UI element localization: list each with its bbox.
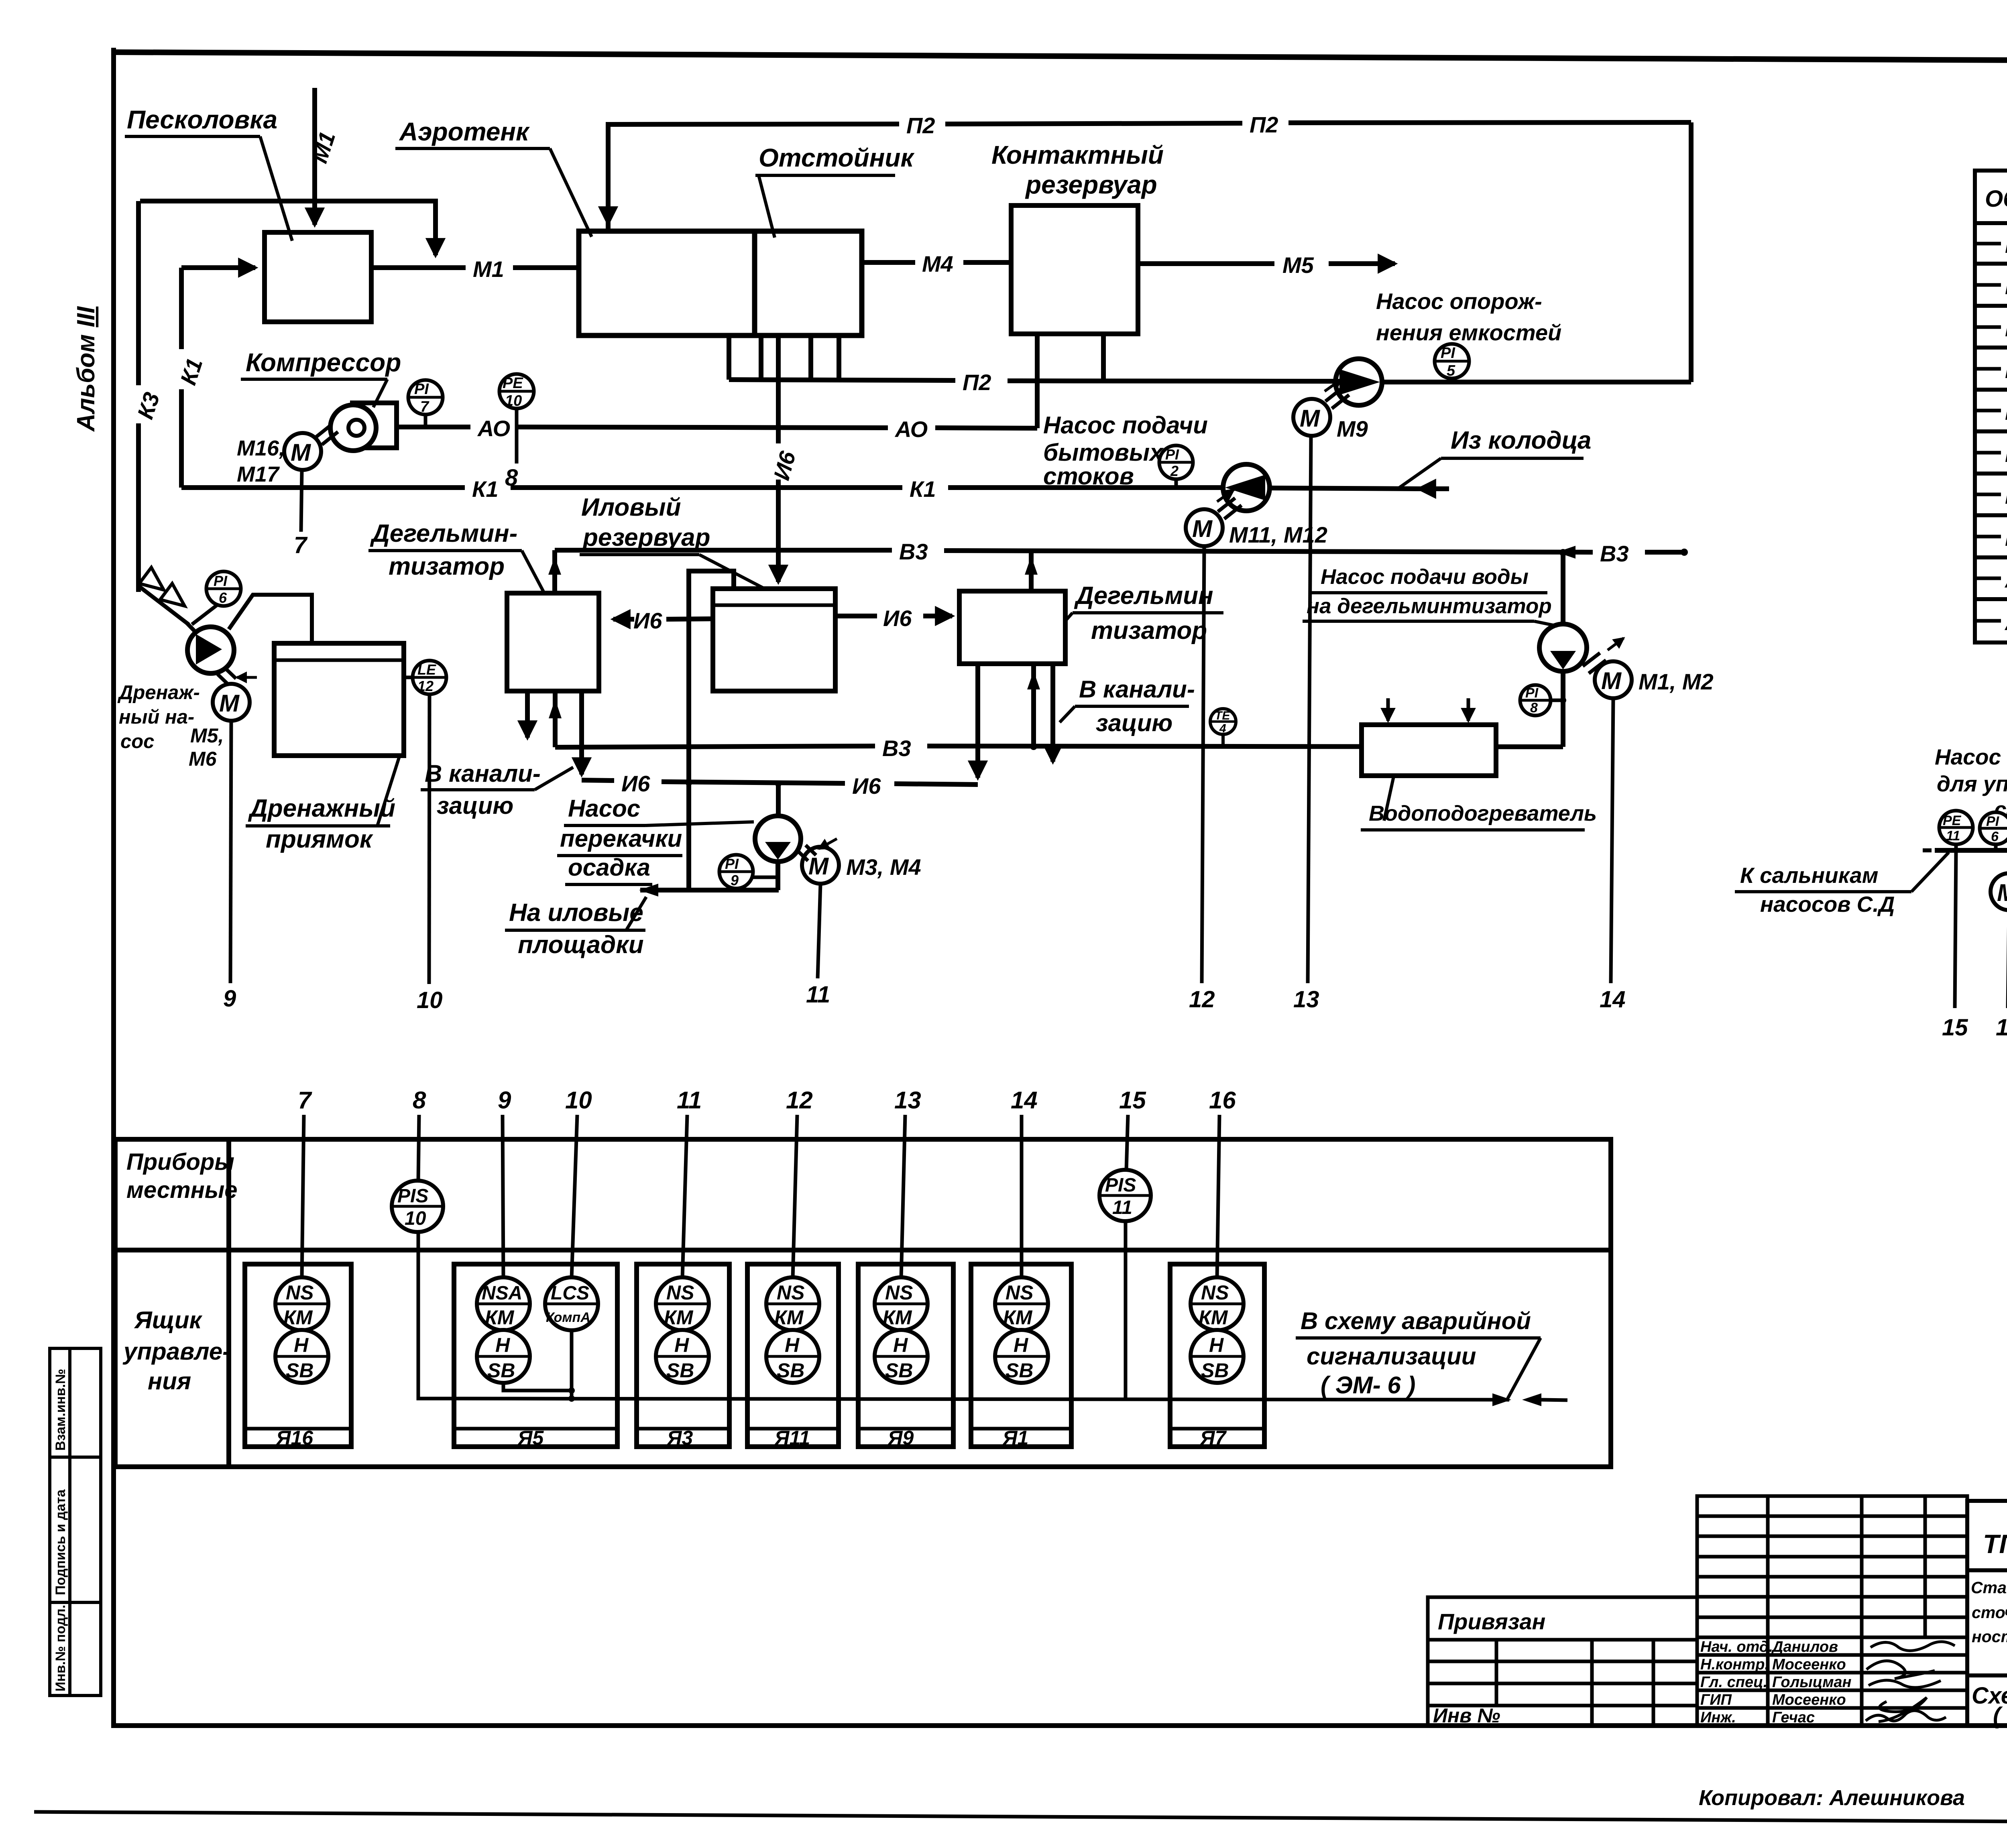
- svg-text:Дренажный: Дренажный: [248, 795, 395, 822]
- svg-text:для уплотнения: для уплотнения: [1937, 771, 2007, 796]
- svg-text:10: 10: [417, 987, 443, 1013]
- svg-text:LE: LE: [417, 661, 436, 678]
- svg-text:Подпись и дата: Подпись и дата: [53, 1489, 68, 1595]
- circle NSA KM box5: [477, 1277, 530, 1330]
- control box Я5: [454, 1264, 617, 1449]
- label Насос подачи бытовых стоков: [1043, 412, 1208, 490]
- svg-text:сос: сос: [120, 731, 154, 752]
- instrument PI 9: [719, 855, 778, 888]
- svg-text:7: 7: [420, 398, 429, 415]
- svg-text:перекачки: перекачки: [560, 825, 682, 852]
- svg-text:К1: К1: [472, 476, 499, 502]
- svg-text:КМ: КМ: [664, 1306, 694, 1329]
- frame left border: [111, 48, 116, 1726]
- svg-text:Я9: Я9: [887, 1427, 914, 1449]
- legend table grid: [1975, 171, 2007, 642]
- svg-text:тизатор: тизатор: [389, 553, 505, 580]
- svg-text:NS: NS: [286, 1281, 313, 1304]
- legend row M1: [1977, 232, 2007, 258]
- heater Водоподогреватель: [1362, 698, 1496, 776]
- wire 14 into box: [1020, 1115, 1024, 1278]
- instrument LE 12: [404, 661, 446, 694]
- svg-text:управле-: управле-: [122, 1338, 230, 1365]
- svg-text:КМ: КМ: [883, 1306, 912, 1329]
- svg-text:11: 11: [1946, 828, 1960, 844]
- svg-text:NS: NS: [1006, 1281, 1033, 1304]
- legend row K1: [1977, 358, 2007, 383]
- legend row A2: [1977, 611, 2007, 635]
- instrument PE 11: [1939, 811, 1973, 850]
- svg-text:М1: М1: [473, 256, 504, 282]
- svg-text:КомпА: КомпА: [546, 1310, 590, 1325]
- svg-text:PI: PI: [1986, 814, 2000, 829]
- svg-text:КМ: КМ: [283, 1306, 313, 1329]
- svg-text:5: 5: [1447, 362, 1455, 379]
- collector line to alarm scheme: [446, 1393, 1567, 1406]
- svg-text:М: М: [1601, 667, 1622, 694]
- apparatus Дегельминтизатор 2: [959, 591, 1065, 664]
- pipe В3 lower line: [555, 736, 1563, 761]
- control box Я7: [1170, 1264, 1264, 1449]
- svg-text:9: 9: [223, 986, 236, 1012]
- paper bottom edge: [34, 1812, 2007, 1824]
- svg-text:А2: А2: [2004, 611, 2007, 635]
- svg-text:М3, М4: М3, М4: [846, 854, 921, 880]
- svg-text:13: 13: [1293, 986, 1319, 1012]
- pipe В3 drop into дегельминтизатор 1: [548, 550, 561, 593]
- signature rows text: [1700, 1639, 1852, 1726]
- svg-text:К1: К1: [2005, 359, 2007, 383]
- instruments table grid: [115, 1139, 1611, 1467]
- circle NS KM box1: [995, 1277, 1048, 1330]
- label станция биологической очистки: [1971, 1578, 2007, 1646]
- pipe K1 vertical with arrow into песколовка: [181, 268, 255, 488]
- legend row I6: [1977, 441, 2007, 467]
- svg-text:М: М: [1192, 515, 1213, 542]
- svg-text:А1: А1: [2004, 568, 2007, 592]
- motor M3 M4: [798, 839, 839, 884]
- svg-text:Н: Н: [1209, 1334, 1224, 1356]
- svg-text:М: М: [808, 853, 829, 880]
- wire 7 from motor: [301, 470, 302, 532]
- pump насос подачи воды на дегельминтизатор: [1539, 549, 1587, 671]
- svg-text:К сальникам: К сальникам: [1740, 863, 1878, 888]
- svg-text:Данилов: Данилов: [1771, 1639, 1838, 1655]
- svg-text:Насос опорож-: Насос опорож-: [1376, 289, 1542, 314]
- wire 12 from M11 M12 motor: [1202, 546, 1204, 983]
- label Приборы местные: [126, 1149, 238, 1203]
- instrument PI 2: [1159, 445, 1193, 488]
- svg-text:П2: П2: [2005, 484, 2007, 508]
- svg-text:ностью 400 м³/сут.: ностью 400 м³/сут.: [1972, 1627, 2007, 1646]
- svg-text:Станция биологической очистки: Станция биологической очистки: [1971, 1578, 2007, 1597]
- pipe П2 top line: [608, 112, 1691, 231]
- circle NS KM box9: [875, 1277, 928, 1330]
- svg-text:11: 11: [677, 1087, 702, 1114]
- svg-text:И6: И6: [621, 771, 650, 796]
- control box Я9: [858, 1264, 953, 1449]
- svg-text:Дренаж-: Дренаж-: [117, 682, 200, 703]
- svg-text:И6: И6: [633, 608, 662, 633]
- instrument PI 7: [408, 380, 443, 427]
- svg-text:9: 9: [498, 1087, 511, 1114]
- wire 11 into box: [682, 1115, 687, 1278]
- pipe В3 upper line: [555, 539, 1688, 566]
- wires inside box5: [503, 1330, 575, 1402]
- svg-text:12: 12: [786, 1087, 813, 1114]
- tank Иловый резервуар: [713, 589, 835, 691]
- pipe sludge discharge from иловый резервуар: [639, 571, 779, 897]
- label Насос подачи воды на дегельминтизатор: [1303, 565, 1557, 626]
- svg-text:Водоподогреватель: Водоподогреватель: [1369, 801, 1597, 825]
- circle H SB box5: [477, 1330, 530, 1383]
- svg-text:15: 15: [1119, 1087, 1146, 1114]
- svg-text:Привязан: Привязан: [1438, 1609, 1545, 1634]
- svg-text:М9: М9: [1337, 416, 1368, 441]
- circle H SB box16: [275, 1330, 328, 1383]
- svg-text:Я3: Я3: [666, 1427, 693, 1449]
- svg-text:М11, М12: М11, М12: [1229, 522, 1327, 547]
- svg-text:М5,: М5,: [190, 724, 224, 747]
- motor M5 M6: [213, 669, 257, 721]
- svg-text:6: 6: [1991, 829, 1999, 844]
- label На иловые площадки: [505, 897, 646, 959]
- svg-text:Гечас: Гечас: [1772, 1709, 1815, 1726]
- svg-text:На иловые: На иловые: [509, 899, 643, 927]
- wire 10 into box: [572, 1115, 577, 1278]
- svg-text:И6: И6: [2005, 443, 2007, 467]
- svg-text:КМ: КМ: [1199, 1306, 1228, 1329]
- svg-text:Н: Н: [785, 1334, 800, 1356]
- svg-text:зацию: зацию: [437, 792, 513, 819]
- svg-text:КМ: КМ: [1003, 1306, 1033, 1329]
- svg-text:( окончание ): ( окончание ): [1993, 1703, 2007, 1729]
- svg-text:Инж.: Инж.: [1700, 1709, 1736, 1726]
- svg-text:М: М: [291, 439, 311, 466]
- instrument TE 4: [1210, 709, 1236, 747]
- svg-text:П2: П2: [906, 113, 935, 138]
- svg-text:М6: М6: [189, 748, 217, 770]
- wire 9 from M5 M6 motor: [230, 721, 231, 983]
- pipe И6 out of иловый резервуар right: [835, 606, 952, 631]
- label Компрессор: [241, 348, 401, 407]
- pipe В3 riser into дег1 bottom: [549, 691, 562, 747]
- svg-text:PI: PI: [214, 573, 228, 589]
- label Насос опорожнения емкостей: [1376, 289, 1561, 345]
- svg-text:Инв.№ подл.: Инв.№ подл.: [53, 1605, 68, 1691]
- apparatus Дегельминтизатор 1: [507, 593, 599, 691]
- svg-text:4: 4: [1219, 722, 1226, 735]
- svg-text:8: 8: [413, 1087, 426, 1114]
- label Иловый резервуар: [580, 494, 765, 589]
- pipe bypass over песколовка: [140, 201, 436, 255]
- svg-text:площадки: площадки: [518, 931, 644, 959]
- svg-text:SВ: SВ: [777, 1359, 804, 1382]
- svg-text:Аэротенк: Аэротенк: [399, 117, 530, 146]
- svg-text:PI: PI: [1165, 446, 1179, 463]
- svg-text:6: 6: [219, 590, 227, 606]
- svg-text:сигнализации: сигнализации: [1307, 1343, 1476, 1370]
- svg-text:К3: К3: [2005, 401, 2007, 425]
- svg-text:Я7: Я7: [1199, 1427, 1227, 1449]
- wire 11 from M3 M4 motor: [818, 884, 820, 978]
- svg-text:местные: местные: [126, 1177, 238, 1203]
- svg-text:И6: И6: [883, 606, 912, 631]
- frame top border: [111, 52, 2007, 62]
- motor M9: [1293, 379, 1349, 436]
- svg-text:PE: PE: [503, 375, 523, 392]
- svg-text:Я16: Я16: [275, 1427, 313, 1449]
- svg-text:Насос подачи воды: Насос подачи воды: [1935, 744, 2007, 769]
- label В схему аварийной сигнализации ЭМ-6: [1296, 1307, 1541, 1399]
- signature squiggles: [1866, 1642, 1955, 1722]
- svg-text:Н: Н: [893, 1334, 908, 1356]
- svg-text:В3: В3: [1600, 541, 1629, 566]
- svg-text:10: 10: [565, 1087, 592, 1114]
- circle H SB box11: [766, 1330, 819, 1383]
- svg-text:К1: К1: [910, 476, 936, 502]
- label Аэротенк: [395, 117, 592, 237]
- svg-text:резервуар: резервуар: [582, 524, 710, 551]
- отстойник hopper legs: [729, 336, 839, 380]
- label Из колодца: [1398, 427, 1591, 489]
- svg-text:зацию: зацию: [1096, 710, 1172, 736]
- svg-text:насосов С.Д: насосов С.Д: [1760, 892, 1895, 917]
- label Дегельминтизатор 2: [1066, 582, 1223, 644]
- svg-text:2: 2: [1170, 463, 1179, 479]
- svg-text:9: 9: [731, 872, 739, 888]
- pipe K1 main line: [181, 476, 1223, 502]
- pipe K3 vertical: [136, 201, 141, 592]
- svg-text:SВ: SВ: [286, 1359, 313, 1382]
- svg-text:Приборы: Приборы: [126, 1149, 234, 1175]
- svg-text:PE: PE: [1943, 813, 1962, 828]
- pipe П2 right leg: [1689, 122, 1694, 382]
- label Песколовка: [125, 105, 292, 241]
- legend row P2: [1977, 483, 2007, 508]
- pipe П2 bottom line: [729, 370, 1691, 395]
- pump насос перекачки осадка М3 М4: [755, 781, 801, 890]
- instrument PI 6 gland: [1980, 812, 2007, 850]
- label Насос подачи воды для уплотнения сальников: [1935, 744, 2007, 822]
- pipe дег1 outlet В канализацию: [525, 691, 530, 738]
- svg-text:Компрессор: Компрессор: [246, 348, 401, 377]
- circle NS KM box7: [1191, 1277, 1244, 1330]
- svg-text:Иловый: Иловый: [581, 494, 681, 521]
- svg-text:16: 16: [1209, 1087, 1236, 1114]
- svg-text:11: 11: [806, 982, 830, 1008]
- svg-text:В канали-: В канали-: [1079, 676, 1195, 703]
- label К сальникам насосов СД: [1735, 852, 1949, 917]
- svg-text:PIS: PIS: [1105, 1175, 1136, 1196]
- motor M16 M17: [284, 425, 338, 470]
- svg-text:Обозн.: Обозн.: [1985, 186, 2007, 212]
- wire 15 into PIS 11 and collector: [1126, 1115, 1128, 1399]
- svg-text:16: 16: [1996, 1014, 2007, 1041]
- svg-text:Н.контр.: Н.контр.: [1700, 1656, 1769, 1673]
- label Контактный резервуар: [991, 140, 1164, 199]
- pipe дег2 vent riser to В3: [1025, 550, 1038, 591]
- tank Контактный резервуар: [1011, 205, 1138, 334]
- motor M1 M2: [1583, 638, 1632, 698]
- pipe И6 иловый резервуар to дегельминтизатор 1: [613, 608, 713, 633]
- svg-text:Насос подачи воды: Насос подачи воды: [1321, 565, 1529, 589]
- pipe дег2 left leg to И6: [975, 664, 980, 778]
- svg-text:10: 10: [405, 1208, 426, 1229]
- pit Дренажный приямок: [274, 643, 404, 756]
- svg-text:ТП 902-3- 81. 88: ТП 902-3- 81. 88: [1983, 1529, 2007, 1559]
- svg-text:бытовых: бытовых: [1043, 439, 1164, 466]
- svg-text:М16,: М16,: [237, 436, 285, 460]
- arrow П2 into аэротенк top: [606, 197, 611, 224]
- svg-text:АО: АО: [894, 417, 928, 442]
- circle NS KM box16: [275, 1277, 328, 1330]
- circle H SB box9: [875, 1330, 928, 1383]
- svg-text:Инв №: Инв №: [1433, 1704, 1500, 1727]
- svg-text:Голыцман: Голыцман: [1772, 1674, 1852, 1691]
- svg-text:М5: М5: [1282, 252, 1314, 278]
- pipe M1 песколовка to аэротенк: [371, 256, 579, 282]
- svg-text:PI: PI: [725, 856, 739, 872]
- svg-text:SВ: SВ: [487, 1359, 515, 1382]
- control box Я3: [637, 1264, 729, 1449]
- svg-text:TE: TE: [1215, 709, 1230, 722]
- pipe дег2 outlet В канализацию: [1050, 664, 1055, 762]
- doc info strip left: [50, 1348, 101, 1696]
- svg-text:Отстойник: Отстойник: [759, 143, 915, 172]
- pipe K1 from well with arrow: [1270, 488, 1449, 489]
- svg-text:М1, М2: М1, М2: [1639, 669, 1714, 694]
- tank Аэротенк with Отстойник section: [579, 231, 862, 335]
- instrument PI 5: [1435, 344, 1469, 382]
- svg-text:LCS: LCS: [551, 1283, 589, 1304]
- svg-text:стоков: стоков: [1043, 463, 1134, 490]
- pipe И6 from отстойник down to иловый резервуар: [769, 336, 801, 582]
- svg-text:SВ: SВ: [885, 1359, 913, 1382]
- wire 16 into box: [1217, 1115, 1219, 1278]
- svg-text:В3: В3: [899, 539, 928, 564]
- label K1 rotated: [165, 349, 208, 389]
- instrument PI 6 drain: [192, 571, 241, 624]
- svg-text:сточных вод производитель-: сточных вод производитель-: [1972, 1603, 2007, 1622]
- svg-text:М4: М4: [2005, 275, 2007, 299]
- label В канализацию 1: [421, 760, 573, 819]
- circle LCS КомпА box5: [545, 1277, 598, 1330]
- svg-text:Насос: Насос: [568, 795, 640, 822]
- svg-text:Мосеенко: Мосеенко: [1772, 1656, 1846, 1673]
- svg-text:М: М: [1300, 405, 1321, 432]
- svg-text:тизатор: тизатор: [1091, 617, 1207, 644]
- label Насос перекачки осадка: [557, 795, 754, 884]
- label K3 rotated: [122, 385, 165, 423]
- pipe M4: [864, 251, 1011, 276]
- svg-text:ния: ния: [148, 1368, 191, 1395]
- svg-text:Н: Н: [674, 1334, 689, 1356]
- svg-text:8: 8: [1530, 700, 1538, 716]
- label Водоподогреватель: [1361, 777, 1597, 830]
- svg-text:М5: М5: [2005, 317, 2007, 341]
- pipe M1 inlet vertical: [312, 88, 317, 225]
- control box Я16: [245, 1264, 351, 1449]
- svg-text:ный на-: ный на-: [119, 706, 194, 728]
- motor M11 M12: [1186, 490, 1242, 546]
- svg-text:М: М: [1997, 879, 2007, 906]
- label M16 M17: [237, 436, 285, 486]
- svg-text:Мосеенко: Мосеенко: [1772, 1691, 1846, 1708]
- svg-text:М4: М4: [922, 251, 953, 276]
- svg-text:осадка: осадка: [568, 854, 650, 881]
- instrument PIS 10: [392, 1181, 443, 1232]
- svg-text:М1: М1: [2005, 234, 2007, 258]
- tank Песколовка: [265, 232, 371, 322]
- circle H SB box3: [656, 1330, 709, 1383]
- wire 12 into box: [793, 1115, 797, 1278]
- svg-text:В схему аварийной: В схему аварийной: [1301, 1307, 1531, 1334]
- pipe gland water line: [1923, 844, 2007, 857]
- title block signature grid: [1697, 1496, 1967, 1726]
- svg-text:SВ: SВ: [1201, 1359, 1229, 1382]
- svg-text:Н: Н: [495, 1334, 510, 1356]
- svg-text:Я11: Я11: [774, 1427, 810, 1449]
- svg-text:Взам.инв.№: Взам.инв.№: [53, 1369, 68, 1451]
- svg-text:П2: П2: [1250, 112, 1278, 137]
- pump насос подачи бытовых стоков М11 М12: [1223, 464, 1270, 511]
- svg-text:Я1: Я1: [1002, 1427, 1028, 1449]
- svg-text:Н: Н: [294, 1334, 309, 1356]
- pipe дег2 В3 feed riser: [1027, 664, 1040, 750]
- svg-text:PI: PI: [1441, 345, 1455, 362]
- pipe водоподогреватель to pump riser: [1561, 671, 1565, 747]
- svg-text:NS: NS: [1201, 1281, 1229, 1304]
- wire 9 into box: [503, 1115, 503, 1278]
- legend header: [1985, 184, 2007, 212]
- svg-text:Гл. спец.: Гл. спец.: [1700, 1674, 1767, 1691]
- wire 10 from LE 12: [429, 694, 429, 984]
- control box Я11: [747, 1264, 839, 1449]
- svg-text:ГИП: ГИП: [1700, 1691, 1732, 1708]
- svg-text:КМ: КМ: [485, 1306, 515, 1329]
- label Дренажный приямок: [246, 756, 399, 853]
- svg-text:Альбом III: Альбом III: [72, 306, 100, 432]
- svg-text:В3: В3: [2005, 527, 2007, 551]
- pipe АО air line: [397, 382, 1037, 442]
- label Ящик управления: [122, 1307, 230, 1395]
- legend row K3: [1977, 399, 2007, 425]
- svg-text:NS: NS: [777, 1281, 804, 1304]
- контактный резервуар legs: [1037, 334, 1103, 382]
- title block привязан table: [1428, 1597, 1697, 1726]
- wire 7 into box: [302, 1115, 304, 1278]
- svg-text:NSА: NSА: [482, 1283, 522, 1304]
- svg-text:Копировал: Алешникова: Копировал: Алешникова: [1699, 1786, 1965, 1810]
- title block right part frame: [1967, 1501, 2007, 1726]
- svg-text:( ЭМ- 6 ): ( ЭМ- 6 ): [1321, 1372, 1415, 1399]
- frame bottom border: [111, 1723, 2007, 1728]
- svg-text:PI: PI: [1525, 685, 1539, 701]
- svg-text:NS: NS: [666, 1281, 694, 1304]
- control box Я1: [971, 1264, 1071, 1449]
- svg-text:Ящик: Ящик: [134, 1307, 202, 1334]
- circle NS KM box11: [766, 1277, 819, 1330]
- svg-text:приямок: приямок: [266, 825, 373, 853]
- label Дегельминтизатор 1: [368, 520, 544, 593]
- legend row M4: [1977, 274, 2007, 299]
- svg-text:резервуар: резервуар: [1025, 170, 1157, 199]
- svg-text:АО: АО: [477, 416, 510, 441]
- legend row M5: [1977, 316, 2007, 341]
- wire 13 into box: [901, 1115, 905, 1278]
- label схема автоматизации окончание: [1972, 1683, 2007, 1729]
